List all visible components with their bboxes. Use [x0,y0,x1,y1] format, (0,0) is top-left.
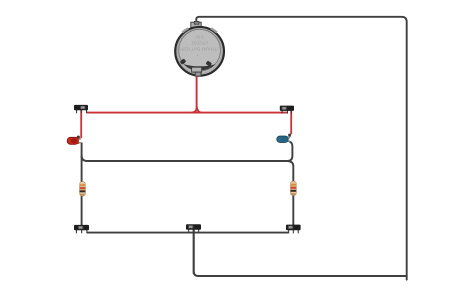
wire from battery plus down right side [196,17,406,280]
battery right clip [206,60,213,66]
svg-text:3.0V: 3.0V [195,35,204,40]
bottom black bus wire y=232.6 [87,232,289,234]
red wire S2 to LED D2 [290,110,292,135]
svg-text:CR2032: CR2032 [191,41,208,46]
wire S4 middle pin drop [193,230,195,275]
coin cell battery BT1 [175,21,224,76]
resistor R2 [291,181,297,195]
resistor R1 [80,182,86,196]
battery top tab [191,22,201,27]
bottom long wire to switch S4 [194,230,407,277]
battery cell face [179,29,221,71]
svg-text:LITHIUM BATTERY: LITHIUM BATTERY [178,47,221,52]
slide switch S2 top-right [280,106,294,114]
slide switch S4 bottom-middle [186,224,201,233]
middle black bus wire y=161 [82,156,288,162]
slide switch S1 top-left [74,105,88,113]
red bus wire y=112.6 [87,112,288,114]
red wire S1 to LED D1 [80,110,82,139]
wire middle bus through R2 down to S5 [288,161,294,228]
wire D2 cathode elbow into middle bus [287,142,292,161]
LED D1 red [67,136,81,145]
red wire battery minus down to tee [192,74,202,113]
battery left clip [180,58,187,64]
battery face text (rotated 180) [178,35,221,58]
battery bottom holder band [184,64,216,70]
slide switch S3 bottom-left [74,225,89,233]
left rail wire D1 cathode through R1 to S3 [81,143,83,229]
slide switch S5 bottom-right [286,225,301,234]
battery ring light breaks [182,28,188,32]
LED D2 blue [277,134,291,143]
battery bottom tab [192,67,202,72]
battery body [175,27,224,76]
